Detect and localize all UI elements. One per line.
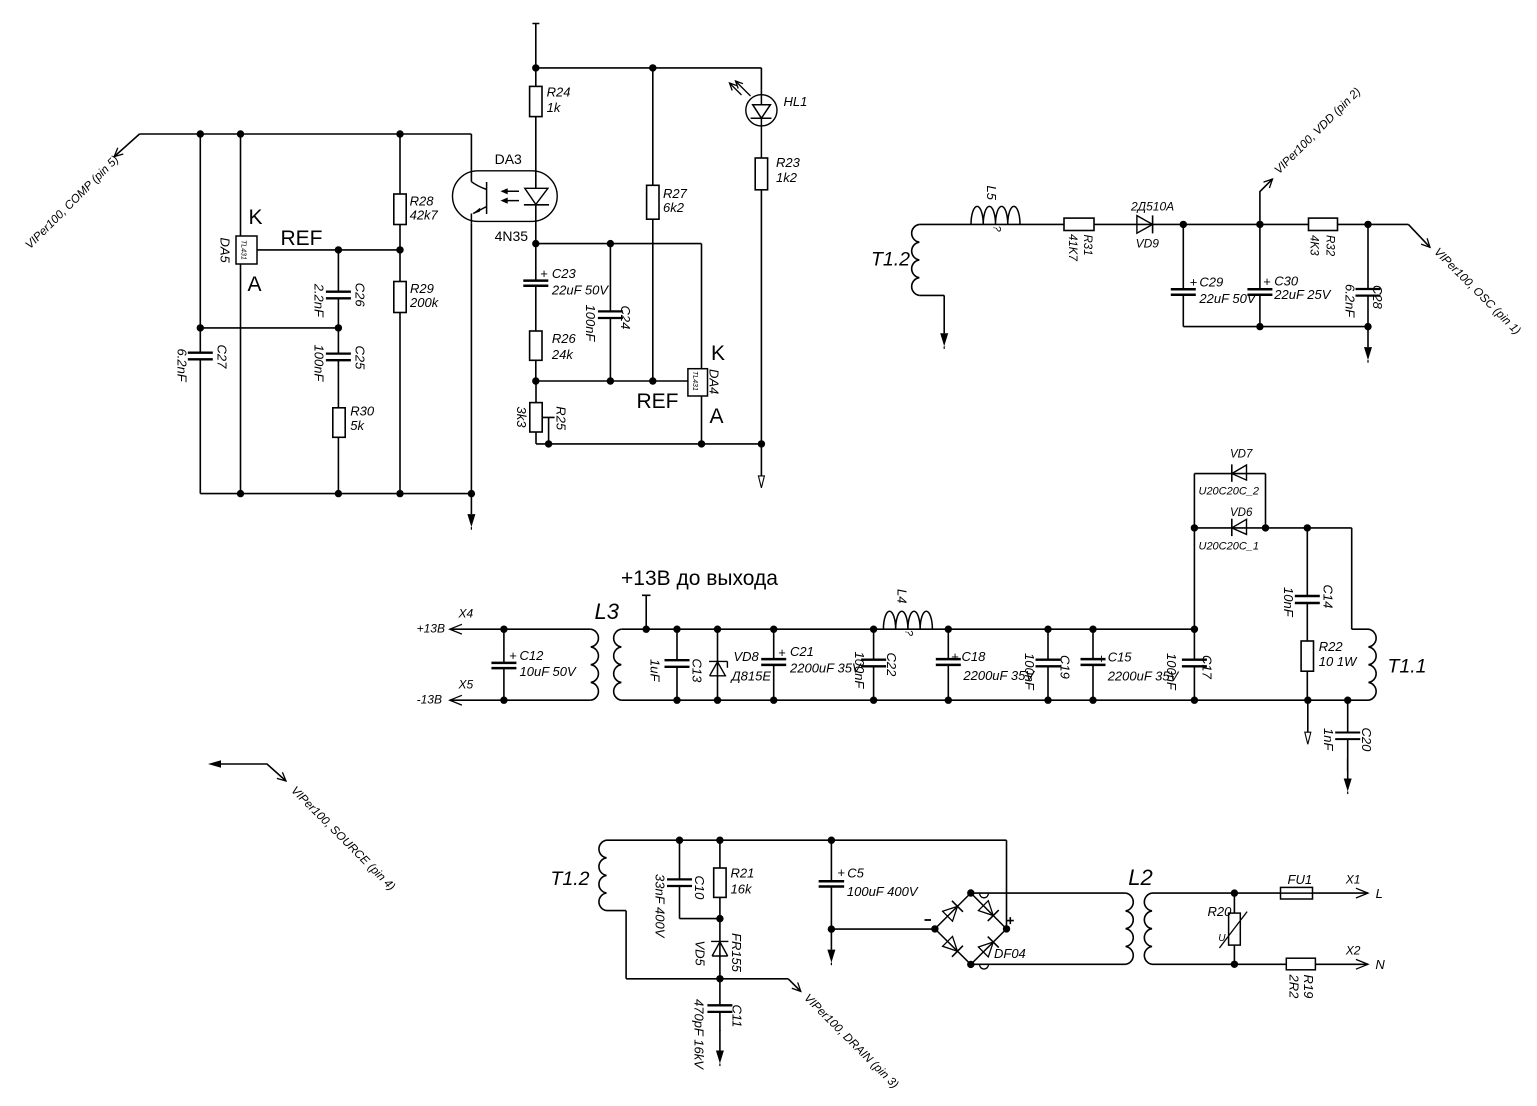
junction [714, 697, 721, 704]
ground arrow [1367, 327, 1369, 348]
fuse FU1 [1281, 872, 1313, 899]
wire: L line [1152, 892, 1368, 894]
svg-text:C17: C17 [1200, 655, 1215, 680]
svg-text:C15: C15 [1108, 650, 1133, 665]
wire [609, 244, 611, 381]
capacitor C27 [175, 134, 230, 494]
wire: primary top rail [607, 840, 1007, 929]
junction [1304, 697, 1311, 704]
svg-text:DA4: DA4 [707, 369, 722, 394]
arrowhead X1 [1356, 888, 1368, 898]
ground arrow [830, 929, 832, 950]
svg-text:R30: R30 [350, 404, 375, 419]
junction [870, 697, 877, 704]
svg-text:C23: C23 [552, 266, 577, 281]
wire [773, 629, 775, 700]
wire: bottom rail (opto emitter return) [200, 493, 471, 495]
wire [1306, 671, 1308, 700]
svg-text:22uF 25V: 22uF 25V [1273, 287, 1331, 302]
wire [719, 979, 721, 1031]
open arrow (to VIPer source) [1307, 700, 1309, 732]
capacitor C29 (polarized) [1171, 224, 1257, 326]
svg-text:TL431: TL431 [240, 240, 247, 260]
svg-text:-13B: -13B [417, 693, 442, 707]
wire [947, 629, 949, 700]
capacitor C12 (polarized) [491, 629, 577, 700]
transformer winding T1.1 [1369, 629, 1377, 700]
svg-text:+: + [1190, 274, 1198, 289]
junction [698, 440, 705, 447]
svg-text:R21: R21 [731, 866, 755, 881]
wire: -13B rail to X5 [450, 699, 591, 701]
capacitor C28 [1343, 224, 1386, 326]
svg-text:10uF 50V: 10uF 50V [520, 664, 577, 679]
junction [607, 377, 614, 384]
wire: N line [1152, 963, 1368, 965]
svg-text:6.2nF: 6.2nF [175, 349, 190, 383]
resistor R19 [1286, 958, 1316, 999]
svg-text:100nF: 100nF [583, 305, 598, 343]
capacitor C30 (polarized) [1247, 224, 1331, 326]
capacitor C10 [653, 840, 720, 938]
junction [396, 246, 403, 253]
svg-text:C11: C11 [730, 1005, 745, 1028]
svg-text:R22: R22 [1319, 639, 1344, 654]
svg-text:C21: C21 [790, 644, 814, 659]
svg-text:R20: R20 [1208, 904, 1233, 919]
svg-text:+: + [540, 266, 548, 281]
junction [1191, 524, 1198, 531]
capacitor C18 (polarized) [936, 629, 1036, 700]
junction [967, 961, 974, 968]
svg-text:2200uF 35V: 2200uF 35V [789, 661, 862, 676]
junction [716, 975, 723, 982]
wire [535, 68, 537, 171]
junction [532, 240, 539, 247]
wire [830, 840, 832, 929]
svg-text:+13В до выхода: +13В до выхода [621, 567, 778, 590]
svg-text:?: ? [991, 226, 1003, 233]
junction [870, 626, 877, 633]
svg-text:X1: X1 [1345, 873, 1361, 887]
mains choke L2 (left winding) [1126, 893, 1134, 964]
svg-text:VD6: VD6 [1230, 507, 1253, 519]
resistor R23 [755, 155, 800, 444]
svg-text:K: K [711, 342, 725, 365]
junction [197, 324, 204, 331]
svg-text:3k3: 3k3 [514, 407, 529, 429]
junction [396, 130, 403, 137]
resistor R24 [530, 68, 571, 171]
junction [716, 837, 723, 844]
wire: DRAIN tap [788, 979, 801, 992]
svg-text:R24: R24 [547, 85, 571, 100]
LED HL1 [730, 81, 808, 158]
wire: R25 wiper tap [543, 417, 555, 444]
resistor R22 [1301, 639, 1358, 700]
wire [717, 629, 719, 700]
svg-text:24k: 24k [551, 347, 574, 362]
junction [714, 626, 721, 633]
wire [535, 244, 537, 331]
wire: DA5 cathode (K) [240, 134, 242, 236]
svg-text:U20C20C_1: U20C20C_1 [1199, 541, 1260, 553]
svg-text:41K7: 41K7 [1066, 234, 1078, 261]
wire [1347, 700, 1349, 771]
junction [945, 626, 952, 633]
wire: opto emitter down to ground rail [470, 223, 472, 493]
svg-text:C24: C24 [618, 306, 633, 330]
svg-text:+13B: +13B [417, 622, 445, 636]
wire [337, 438, 339, 494]
svg-text:C19: C19 [1058, 655, 1073, 679]
diode VD7 (U20C20C_2) [1199, 449, 1260, 498]
capacitor C11 [692, 979, 745, 1070]
label plus [1007, 917, 1014, 924]
wire [1193, 629, 1195, 700]
junction [676, 837, 683, 844]
svg-text:C29: C29 [1199, 274, 1223, 289]
svg-text:U: U [1218, 933, 1226, 944]
junction [1191, 697, 1198, 704]
svg-text:C14: C14 [1321, 585, 1336, 609]
wire: C23 top node [536, 244, 702, 369]
resistor R27 [647, 68, 688, 381]
resistor R31 [1064, 218, 1094, 261]
wire [535, 381, 537, 444]
arrowhead X4 [450, 624, 462, 634]
wire: rectifier branch [1194, 474, 1351, 630]
wire: bridge minus lead [831, 928, 935, 930]
capacitor C5 (polarized) [819, 840, 919, 929]
capacitor C26 [312, 250, 368, 328]
wire: DA5 anode (A) [240, 264, 242, 494]
junction [532, 64, 539, 71]
diode VD9 (2Д510А) [1130, 200, 1174, 251]
label minus [925, 919, 932, 921]
svg-text:10nF: 10nF [1281, 587, 1296, 618]
svg-text:1uF: 1uF [648, 659, 663, 682]
ground arrow [943, 313, 945, 334]
junction [1256, 221, 1263, 228]
wire [1233, 893, 1235, 964]
junction [1089, 697, 1096, 704]
svg-text:R25: R25 [553, 406, 568, 431]
svg-text:K: K [249, 206, 263, 229]
arrowhead COMP [114, 148, 123, 157]
junction [1304, 524, 1311, 531]
svg-text:C26: C26 [353, 283, 368, 308]
junction [335, 246, 342, 253]
junction [468, 490, 475, 497]
svg-text:U20C20C_2: U20C20C_2 [1199, 486, 1260, 498]
junction [967, 889, 974, 896]
wire [1306, 528, 1308, 641]
wire: winding bottom to drain [607, 911, 789, 979]
arrowhead X5 [450, 695, 462, 705]
svg-text:4K3: 4K3 [1308, 235, 1320, 256]
wire: secondary - rail [621, 699, 1368, 701]
svg-text:6.2nF: 6.2nF [1343, 284, 1358, 318]
wire [680, 840, 720, 918]
svg-text:?: ? [903, 630, 915, 637]
wire [1182, 224, 1184, 326]
junction [758, 440, 765, 447]
svg-text:REF: REF [637, 390, 679, 413]
svg-text:42k7: 42k7 [410, 208, 439, 223]
svg-text:R26: R26 [552, 331, 577, 346]
svg-text:VD5: VD5 [693, 941, 708, 967]
junction [500, 697, 507, 704]
resistor R29 [394, 225, 440, 494]
wire: secondary + rail [621, 628, 1194, 630]
junction [1003, 925, 1010, 932]
capacitor C23 (polarized) [523, 244, 609, 331]
svg-text:1nF: 1nF [1321, 728, 1336, 751]
svg-text:VD7: VD7 [1230, 449, 1253, 461]
wire: opto collector [470, 134, 472, 182]
capacitor C19 [1022, 629, 1073, 700]
bridge rectifier DF04 [925, 893, 1026, 964]
varistor R20 [1208, 893, 1248, 964]
junction [1180, 221, 1187, 228]
wire [676, 629, 678, 700]
filter choke L3 (left winding) [591, 629, 599, 700]
wire: aux ground rail [1183, 326, 1368, 328]
svg-text:DA3: DA3 [495, 151, 522, 167]
junction [649, 377, 656, 384]
junction [335, 324, 342, 331]
hook (no-connect hop) [980, 893, 989, 898]
wire [1092, 629, 1094, 700]
wire [1047, 629, 1049, 700]
junction [931, 925, 938, 932]
svg-text:C5: C5 [847, 866, 864, 881]
wire [719, 919, 721, 979]
junction [716, 915, 723, 922]
inductor L4 [883, 589, 932, 637]
svg-text:100uF 400V: 100uF 400V [847, 884, 919, 899]
capacitor C22 [852, 629, 899, 700]
wire: mid horizontal [200, 327, 338, 329]
junction [396, 490, 403, 497]
wire: DA4 REF node [536, 380, 688, 382]
svg-text:L3: L3 [595, 599, 620, 624]
svg-text:VD9: VD9 [1136, 237, 1160, 251]
diode VD5 (FR155) [693, 919, 745, 979]
junction [1089, 626, 1096, 633]
ground arrow [719, 1030, 721, 1051]
svg-text:5k: 5k [350, 418, 365, 433]
junction [673, 626, 680, 633]
svg-text:C20: C20 [1359, 728, 1374, 753]
wire: VDD tap [1260, 179, 1273, 224]
op-amp DA4 (TL431) [688, 369, 722, 396]
svg-text:1k: 1k [547, 100, 562, 115]
svg-text:L2: L2 [1128, 865, 1152, 890]
junction [770, 626, 777, 633]
svg-text:+: + [1263, 274, 1271, 289]
junction [237, 490, 244, 497]
wire: top rail [536, 68, 762, 95]
inductor L4 bumps [883, 611, 932, 629]
svg-text:+: + [951, 649, 959, 664]
wire [652, 68, 654, 381]
svg-text:C18: C18 [962, 649, 987, 664]
junction [335, 490, 342, 497]
wire [873, 629, 875, 700]
capacitor C25 [312, 328, 368, 408]
wire: T1.1 top lead [1352, 528, 1369, 629]
resistor R26 [530, 331, 577, 381]
wire: SOURCE pin pointer [208, 760, 398, 893]
inductor L5 bumps [971, 206, 1020, 224]
wire: DA4 anode [701, 396, 703, 444]
svg-text:+: + [1098, 651, 1106, 666]
svg-text:+: + [509, 648, 517, 663]
junction [1262, 524, 1269, 531]
svg-text:C22: C22 [884, 653, 899, 678]
svg-text:C25: C25 [353, 346, 368, 371]
svg-text:REF: REF [281, 227, 323, 250]
svg-text:+: + [838, 865, 846, 880]
svg-text:DF04: DF04 [994, 946, 1026, 961]
wire [337, 250, 339, 328]
wire: diagonal to COMP arrow [114, 134, 139, 157]
junction [945, 697, 952, 704]
bridge diode (lower-left) [942, 936, 963, 957]
junction [673, 697, 680, 704]
junction [1231, 961, 1238, 968]
wire [1367, 224, 1369, 326]
mains choke L2 (right winding) [1144, 893, 1152, 964]
transformer winding T1.2 (aux) [912, 224, 920, 295]
wire [535, 360, 537, 381]
wire [503, 629, 505, 700]
junction [1231, 889, 1238, 896]
svg-text:2R2: 2R2 [1287, 974, 1302, 1000]
svg-text:R19: R19 [1301, 975, 1316, 999]
op-amp DA5 (TL431) [218, 236, 258, 264]
arrowhead VDD [1264, 179, 1273, 188]
capacitor C17 [1164, 629, 1215, 700]
svg-text:R23: R23 [776, 155, 801, 170]
svg-text:+: + [778, 645, 786, 660]
arrowhead DRAIN [792, 982, 801, 991]
junction [532, 377, 539, 384]
junction [1364, 221, 1371, 228]
svg-text:X5: X5 [458, 678, 474, 692]
junction [1256, 323, 1263, 330]
capacitor C24 [583, 244, 633, 381]
svg-text:33nF 400V: 33nF 400V [653, 874, 668, 939]
bridge diode (upper-left) [942, 901, 963, 922]
wire: +13B rail to X4 [450, 628, 591, 630]
svg-text:X2: X2 [1345, 944, 1361, 958]
svg-text:C10: C10 [692, 876, 707, 901]
svg-text:16k: 16k [731, 882, 753, 897]
bridge diode (upper-right) [978, 900, 999, 921]
wire: OSC tap [1408, 224, 1430, 247]
svg-text:VD8: VD8 [734, 649, 760, 664]
svg-text:DA5: DA5 [218, 238, 233, 264]
junction [1191, 626, 1198, 633]
resistor R21 [714, 840, 755, 918]
svg-text:T1.1: T1.1 [1388, 656, 1427, 678]
wire: bridge AC top to L2 [971, 892, 1126, 894]
junction [1344, 697, 1351, 704]
capacitor C15 (polarized) [1081, 629, 1180, 700]
diode VD6 (U20C20C_1) [1199, 507, 1260, 553]
svg-text:T1.2: T1.2 [871, 249, 910, 271]
wire [199, 134, 201, 494]
svg-text:C13: C13 [690, 659, 705, 684]
svg-text:HL1: HL1 [784, 94, 808, 109]
capacitor C14 [1281, 528, 1336, 641]
svg-text:6k2: 6k2 [663, 200, 685, 215]
svg-text:22uF 50V: 22uF 50V [1198, 291, 1256, 306]
svg-text:C27: C27 [215, 345, 230, 370]
wire [1259, 224, 1261, 326]
junction [828, 837, 835, 844]
wire: REF net [257, 249, 400, 251]
junction [1044, 697, 1051, 704]
svg-text:100nF: 100nF [1164, 653, 1179, 691]
svg-text:470pF 16kV: 470pF 16kV [692, 999, 707, 1070]
junction [545, 440, 552, 447]
trimmer resistor R25 [514, 381, 568, 444]
ground arrow [470, 494, 472, 514]
junction [643, 626, 650, 633]
resistor R32 [1308, 218, 1338, 257]
wire: bridge AC bottom to L2 [971, 963, 1126, 965]
arrowhead OSC [1421, 238, 1430, 247]
svg-text:T1.2: T1.2 [551, 868, 590, 890]
inductor L5 [971, 186, 1020, 233]
svg-text:22uF 50V: 22uF 50V [551, 283, 609, 298]
opto-coupler DA3 (4N35) [453, 134, 558, 244]
wire [399, 134, 401, 194]
svg-text:10 1W: 10 1W [1319, 654, 1358, 669]
junction [828, 925, 835, 932]
wire [719, 840, 721, 918]
svg-text:100nF: 100nF [312, 345, 327, 383]
svg-text:100nF: 100nF [852, 652, 867, 690]
svg-text:N: N [1375, 957, 1385, 972]
junction [197, 130, 204, 137]
svg-text:A: A [710, 405, 724, 428]
svg-text:C12: C12 [520, 648, 545, 663]
svg-text:R28: R28 [410, 194, 435, 209]
junction [607, 240, 614, 247]
wire [337, 328, 339, 408]
wire [760, 190, 762, 444]
capacitor C20 [1321, 700, 1374, 771]
svg-text:A: A [248, 273, 262, 296]
svg-text:R29: R29 [410, 281, 434, 296]
wire: bottom node (R25/DA4-A/R23) [536, 443, 761, 445]
hook (no-connect hop) [980, 964, 989, 969]
arrowhead X2 [1356, 959, 1368, 969]
svg-text:TL431: TL431 [691, 371, 698, 391]
ground arrow [1347, 758, 1349, 779]
capacitor C13 [648, 629, 705, 700]
svg-text:1k2: 1k2 [776, 170, 798, 185]
svg-text:L4: L4 [895, 589, 910, 603]
junction [649, 64, 656, 71]
node +13В до выхода (tap) [642, 595, 651, 629]
wire [399, 225, 401, 494]
